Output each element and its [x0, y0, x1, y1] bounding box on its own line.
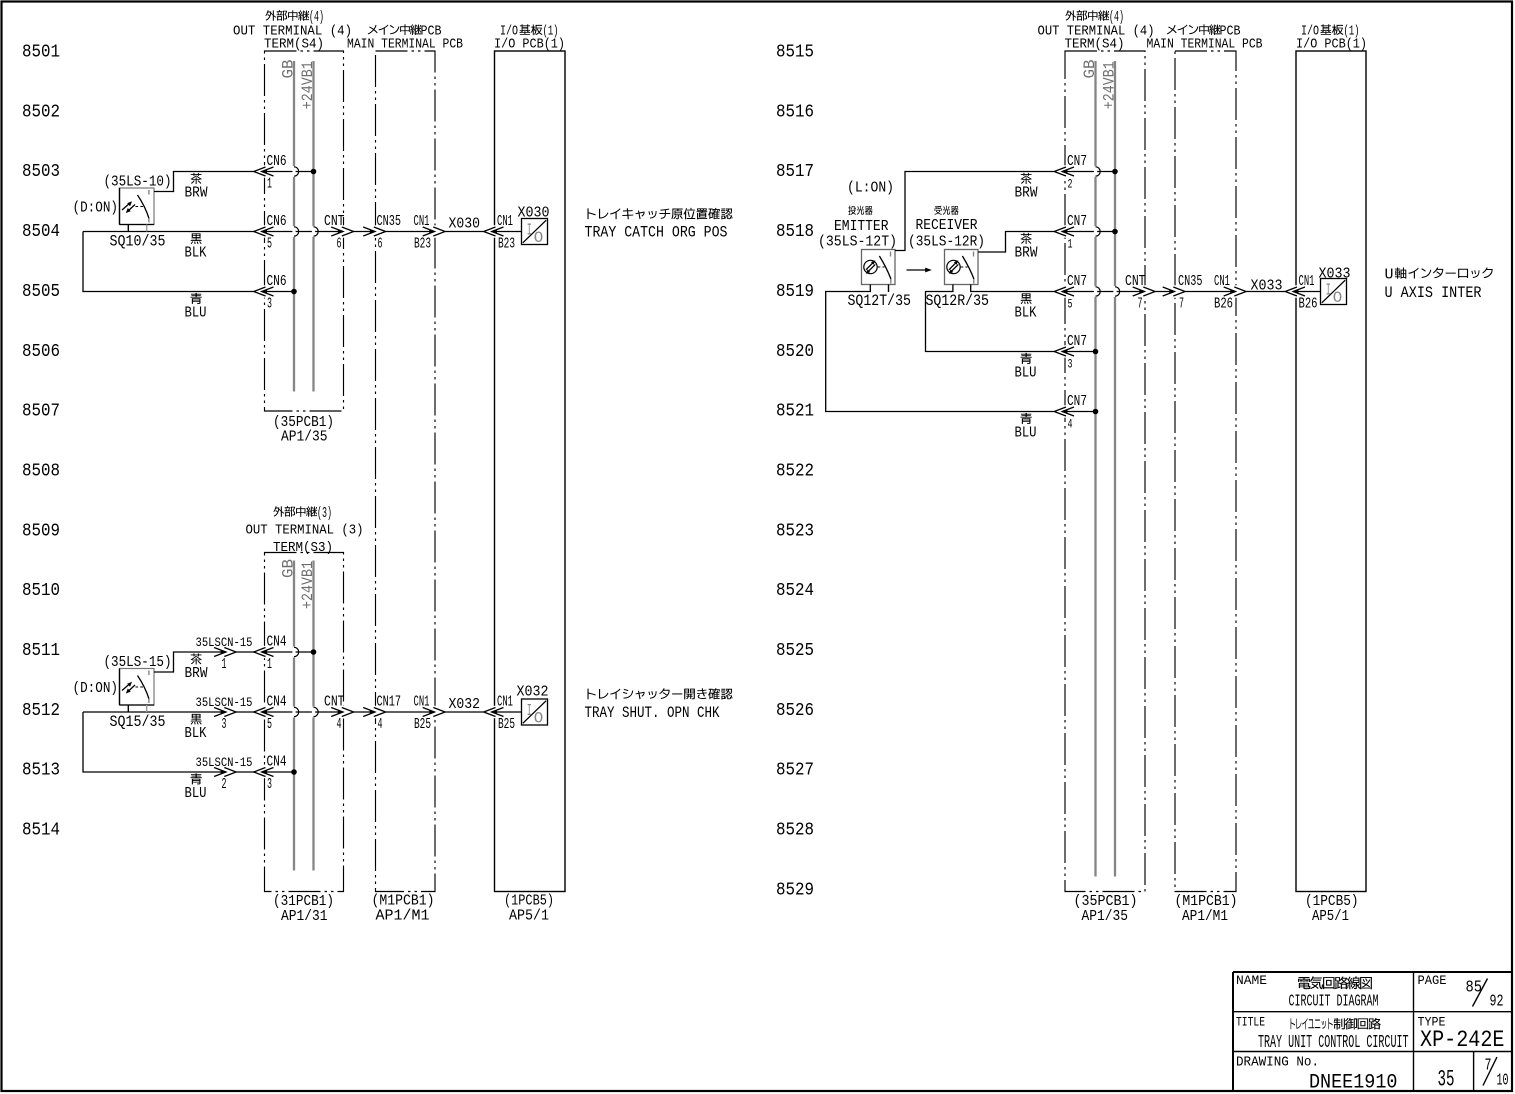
connector CNT pin4 (bottom-left) [342, 706, 346, 718]
svg-text:TITLE: TITLE [1236, 1014, 1265, 1029]
svg-text:TRAY SHUT. OPN CHK: TRAY SHUT. OPN CHK [585, 704, 721, 722]
svg-text:8521: 8521 [776, 402, 814, 422]
wire CN4 pin3 to GB [262, 771, 294, 773]
svg-text:SQ12R/35: SQ12R/35 [926, 292, 990, 310]
wire CN7 pin4 to GB [1062, 411, 1095, 413]
emitter body SQ12T/35 [862, 250, 896, 285]
svg-text:6: 6 [378, 236, 383, 253]
svg-text:CN35: CN35 [377, 213, 402, 230]
svg-text:BLU: BLU [185, 305, 207, 322]
svg-text:35LSCN-15: 35LSCN-15 [196, 755, 253, 770]
svg-text:35LSCN-15: 35LSCN-15 [196, 635, 253, 650]
svg-text:35: 35 [1438, 1066, 1455, 1092]
connector CN7 pin2 [1063, 165, 1067, 177]
svg-text:BLU: BLU [185, 785, 207, 802]
svg-text:8528: 8528 [776, 821, 814, 841]
svg-text:RECEIVER: RECEIVER [916, 217, 978, 234]
svg-text:TRAY UNIT CONTROL CIRCUIT: TRAY UNIT CONTROL CIRCUIT [1258, 1033, 1409, 1053]
svg-text:8511: 8511 [22, 641, 60, 661]
svg-text:BLU: BLU [1015, 365, 1037, 382]
svg-text:+24VB1: +24VB1 [299, 561, 317, 609]
MAIN TERMINAL PCB box (left) [376, 51, 436, 892]
svg-text:I: I [527, 702, 532, 721]
wire segment CN35 to CN1/B23 [386, 231, 433, 233]
svg-text:8516: 8516 [776, 102, 814, 122]
svg-text:8517: 8517 [776, 162, 814, 182]
svg-text:+24VB1: +24VB1 [299, 61, 317, 109]
wire BLK row 8512 [83, 711, 226, 713]
connector CN6 pin3 [263, 285, 267, 297]
wire BRW: sensor top to cable conn row 8511 [154, 652, 226, 672]
svg-text:8502: 8502 [22, 102, 60, 122]
svg-text:SQ10/35: SQ10/35 [110, 232, 166, 250]
svg-text:8519: 8519 [776, 282, 814, 302]
svg-text:AP5/1: AP5/1 [509, 908, 549, 925]
svg-text:2: 2 [222, 776, 227, 793]
svg-text:CN4: CN4 [267, 754, 287, 771]
svg-text:CN6: CN6 [267, 273, 287, 290]
wire CN4 pin1 to +24VB1 [262, 651, 314, 653]
cable connector 35LSCN-15 pin3 [214, 708, 226, 717]
svg-text:B23: B23 [498, 235, 515, 252]
svg-text:CN1: CN1 [414, 694, 430, 711]
svg-text:X030: X030 [449, 216, 481, 233]
svg-text:BLK: BLK [185, 725, 207, 742]
svg-text:3: 3 [1068, 356, 1073, 371]
svg-text:5: 5 [267, 235, 272, 252]
wire CN6 pin3 to GB [262, 291, 294, 293]
svg-text:8515: 8515 [776, 43, 814, 63]
connector CN4 pin3 [263, 766, 267, 778]
svg-text:8503: 8503 [22, 162, 60, 182]
svg-text:4: 4 [1068, 416, 1073, 431]
svg-text:CN1: CN1 [1299, 273, 1315, 290]
colour labels bottom section [191, 653, 202, 664]
wire CN6 pin1 to +24VB1 [262, 171, 314, 173]
svg-text:MAIN TERMINAL PCB: MAIN TERMINAL PCB [347, 37, 463, 53]
svg-text:CN7: CN7 [1067, 153, 1087, 170]
svg-text:1: 1 [222, 656, 227, 673]
svg-text:3: 3 [267, 295, 272, 312]
connector CN1/B25 (main right) [433, 706, 437, 718]
svg-text:3: 3 [267, 776, 272, 793]
svg-text:BRW: BRW [185, 185, 208, 202]
svg-text:CN1: CN1 [414, 213, 430, 230]
labels 受光器 RECEIVER (35LS-12R) [934, 206, 941, 215]
svg-text:8510: 8510 [22, 581, 60, 601]
labels 投光器 EMITTER (35LS-12T) [848, 206, 856, 215]
svg-text:35LSCN-15: 35LSCN-15 [196, 695, 253, 710]
connector CN17 pin4 [374, 706, 378, 718]
svg-text:CIRCUIT DIAGRAM: CIRCUIT DIAGRAM [1289, 991, 1379, 1010]
svg-text:TERM(S3): TERM(S3) [273, 540, 333, 556]
connector CN1/B25 (I/O left) [493, 706, 497, 718]
connector CN7 pin1 [1063, 225, 1067, 237]
svg-text:8506: 8506 [22, 342, 60, 362]
svg-text:1: 1 [1068, 236, 1073, 251]
svg-text:8512: 8512 [22, 701, 60, 721]
OUT TERMINAL(3) box [265, 553, 344, 892]
svg-text:8523: 8523 [776, 521, 814, 541]
connector CN1/B23 (I/O left) [493, 225, 497, 237]
emitter right pin stub [888, 285, 890, 293]
svg-text:CN7: CN7 [1067, 393, 1087, 410]
svg-text:CN7: CN7 [1067, 213, 1087, 230]
svg-text:AP1/35: AP1/35 [281, 428, 328, 445]
svg-text:(35LS-15): (35LS-15) [104, 654, 172, 671]
svg-text:SQ15/35: SQ15/35 [110, 713, 166, 731]
wire CN7 pin1 to +24VB1 [1062, 231, 1115, 233]
svg-text:8525: 8525 [776, 641, 814, 661]
wire cable conn to CN4 rows [236, 651, 254, 653]
svg-text:8522: 8522 [776, 461, 814, 481]
svg-text:O: O [534, 229, 544, 247]
connector CN1/B26 (I/O left) [1294, 285, 1298, 297]
svg-text:BRW: BRW [1015, 245, 1038, 262]
svg-text:7: 7 [1138, 296, 1143, 313]
svg-text:5: 5 [1068, 296, 1073, 311]
svg-text:CN35: CN35 [1178, 273, 1203, 290]
wire CN7 pin3 to GB [1062, 351, 1095, 353]
wire row 8504 BLK through to I/O [262, 231, 344, 233]
connector CNT pin7 (right) [1143, 285, 1147, 297]
connector CN1/B26 (main right) [1234, 285, 1238, 297]
wire CN7 pin2 to +24VB1 [1062, 171, 1115, 173]
svg-text:(35LS-12T): (35LS-12T) [818, 233, 897, 250]
header メイン中継PCB (left) [368, 25, 378, 35]
svg-text:B25: B25 [414, 716, 431, 733]
svg-text:B25: B25 [498, 716, 515, 733]
svg-text:AP1/35: AP1/35 [1082, 908, 1129, 925]
MAIN TERMINAL PCB box (right) [1175, 51, 1236, 892]
svg-text:I/O PCB(1): I/O PCB(1) [494, 37, 565, 53]
svg-text:NAME: NAME [1236, 973, 1267, 988]
svg-text:BLK: BLK [1015, 305, 1037, 322]
svg-text:CN1: CN1 [497, 694, 513, 711]
svg-text:8514: 8514 [22, 821, 60, 841]
svg-text:(D:ON): (D:ON) [73, 200, 119, 217]
svg-text:CNT: CNT [1125, 273, 1146, 290]
connector CN4 pin1 [263, 646, 267, 658]
svg-text:3: 3 [222, 716, 227, 733]
svg-text:DNEE1910: DNEE1910 [1309, 1071, 1398, 1094]
svg-text:XP-242E: XP-242E [1420, 1027, 1505, 1053]
+24VB1 power line (right) [1114, 61, 1116, 877]
svg-text:B23: B23 [414, 235, 431, 252]
svg-text:BRW: BRW [185, 665, 208, 682]
svg-text:8501: 8501 [22, 43, 60, 63]
I/O PCB box (right) [1296, 51, 1366, 892]
svg-text:10: 10 [1497, 1071, 1509, 1090]
svg-text:CN1: CN1 [497, 213, 513, 230]
svg-text:(3): (3) [317, 505, 332, 522]
svg-text:BLK: BLK [185, 245, 207, 262]
svg-text:BRW: BRW [1015, 185, 1038, 202]
svg-text:I: I [527, 222, 532, 241]
svg-text:B26: B26 [1214, 295, 1233, 312]
svg-text:O: O [1333, 289, 1343, 307]
svg-text:+24VB1: +24VB1 [1101, 61, 1119, 109]
title block [1233, 971, 1512, 973]
svg-text:8505: 8505 [22, 282, 60, 302]
wire BLU loop row 8513 [83, 712, 226, 772]
svg-text:(D:ON): (D:ON) [73, 680, 119, 697]
svg-text:8513: 8513 [22, 761, 60, 781]
svg-text:8509: 8509 [22, 521, 60, 541]
svg-text:CN6: CN6 [267, 153, 287, 170]
svg-text:1: 1 [267, 175, 272, 192]
svg-text:6: 6 [337, 236, 342, 253]
svg-text:8520: 8520 [776, 342, 814, 362]
svg-text:5: 5 [267, 716, 272, 733]
colour labels right section [1021, 173, 1032, 184]
svg-text:OUT TERMINAL (3): OUT TERMINAL (3) [246, 523, 364, 539]
svg-text:CN4: CN4 [267, 694, 287, 711]
svg-text:8508: 8508 [22, 461, 60, 481]
wire BLU: loop to CN6 pin3 [83, 232, 254, 292]
svg-text:8504: 8504 [22, 222, 60, 242]
wire BRW: sensor top to CN6 pin1 [154, 172, 254, 192]
svg-text:X032: X032 [517, 683, 549, 700]
connector CN7 pin4 [1063, 405, 1067, 417]
I/O PCB box (left) [495, 51, 566, 892]
svg-text:TRAY CATCH ORG POS: TRAY CATCH ORG POS [585, 223, 728, 241]
svg-text:CN7: CN7 [1067, 273, 1087, 290]
svg-text:AP1/M1: AP1/M1 [376, 908, 430, 925]
connector CN7 pin5 [1063, 285, 1067, 297]
svg-text:8524: 8524 [776, 581, 814, 601]
function text TRAY CATCH ORG POS [587, 208, 595, 219]
svg-text:CN17: CN17 [377, 694, 402, 711]
connector CN7 pin3 [1063, 345, 1067, 357]
svg-text:AP1/M1: AP1/M1 [1182, 908, 1228, 925]
wire emitter left pin loop to CN7 pin4 [826, 285, 1054, 412]
header メイン中継PCB (right) [1167, 25, 1177, 35]
light beam arrow emitter->receiver [907, 269, 929, 271]
connector CN4 pin5 [263, 706, 267, 718]
wire segment CNT to CN35 [354, 231, 374, 233]
svg-text:BLU: BLU [1015, 425, 1037, 442]
svg-text:CN7: CN7 [1067, 333, 1087, 350]
receiver body SQ12R/35 [945, 250, 979, 285]
svg-text:DRAWING No.: DRAWING No. [1236, 1055, 1319, 1071]
svg-text:I/O PCB(1): I/O PCB(1) [1296, 37, 1367, 53]
svg-text:AP5/1: AP5/1 [1312, 908, 1349, 925]
svg-text:CNT: CNT [324, 213, 345, 230]
svg-text:MAIN TERMINAL PCB: MAIN TERMINAL PCB [1147, 37, 1263, 53]
svg-text:GB: GB [1081, 60, 1099, 79]
svg-text:8518: 8518 [776, 222, 814, 242]
wire BLK: sensor bottom to CN6 pin5 [83, 231, 254, 233]
+24VB1 power line (bottom-left) [312, 561, 314, 871]
svg-text:CN1: CN1 [1214, 273, 1230, 290]
svg-text:AP1/31: AP1/31 [281, 908, 328, 925]
OUT TERMINAL(4) box (right) [1065, 51, 1145, 892]
svg-text:CN6: CN6 [267, 213, 287, 230]
connector CN6 pin1 [263, 165, 267, 177]
GB power line (right) [1094, 61, 1096, 877]
svg-text:2: 2 [1068, 176, 1073, 191]
OUT TERMINAL(4) box [265, 51, 344, 411]
cable connector 35LSCN-15 pin1 [214, 648, 226, 657]
svg-text:8526: 8526 [776, 701, 814, 721]
svg-text:8529: 8529 [776, 880, 814, 900]
svg-text:O: O [534, 709, 544, 727]
GB power line (bottom-left) [293, 561, 295, 871]
wire colour labels 茶BRW 黒BLK 青BLU [191, 173, 202, 184]
header 外部中継(4) right [1065, 10, 1076, 20]
svg-text:1: 1 [267, 656, 272, 673]
svg-text:8527: 8527 [776, 761, 814, 781]
svg-text:U: U [1385, 266, 1394, 283]
sensor body SQ10/35 (35LS-10) [120, 188, 155, 225]
GB power line (top-left) [293, 61, 295, 392]
wire receiver right pin to CN7 pin5 [971, 285, 1054, 292]
wire receiver top to CN7 pin1 [978, 232, 1054, 253]
wire row 8519 through to I/O [1062, 291, 1145, 293]
svg-text:U AXIS INTER: U AXIS INTER [1385, 284, 1482, 302]
cable connector 35LSCN-15 pin2 [214, 768, 226, 777]
svg-text:4: 4 [337, 716, 342, 733]
svg-text:PAGE: PAGE [1418, 973, 1447, 988]
connector CN6 pin5 [263, 225, 267, 237]
svg-text:92: 92 [1490, 991, 1504, 1010]
connector CNT pin6 (top-left) [342, 225, 346, 237]
wire segment to I/O CN1 [445, 231, 484, 233]
svg-text:CNT: CNT [324, 694, 345, 711]
svg-text:(35LS-12R): (35LS-12R) [908, 233, 985, 250]
svg-text:TERM(S4): TERM(S4) [264, 37, 324, 53]
function text TRAY SHUT OPN CHK [587, 689, 595, 700]
svg-text:GB: GB [280, 60, 298, 79]
header 外部中継(4) top-left [265, 10, 276, 20]
svg-text:SQ12T/35: SQ12T/35 [848, 292, 912, 310]
connector CN1/B23 (main right) [433, 225, 437, 237]
svg-text:GB: GB [280, 559, 298, 578]
svg-text:(35LS-10): (35LS-10) [104, 173, 172, 190]
sensor body SQ15/35 (35LS-15) [120, 669, 155, 706]
connector CN35 pin6 [374, 225, 378, 237]
header 外部中継(3) bottom-left [273, 506, 284, 516]
svg-text:TERM(S4): TERM(S4) [1065, 37, 1125, 53]
wire receiver left pin loop to CN7 pin3 [926, 285, 1055, 352]
svg-text:CN4: CN4 [267, 634, 287, 651]
svg-text:I: I [1326, 282, 1331, 301]
svg-text:4: 4 [378, 716, 383, 733]
wire row 8512 through to I/O [262, 711, 344, 713]
svg-text:B26: B26 [1299, 295, 1318, 312]
wire emitter top to CN7 pin2 [895, 172, 1054, 251]
wire into X030 symbol [492, 231, 522, 233]
svg-text:(L:ON): (L:ON) [847, 179, 894, 196]
svg-text:7: 7 [1179, 296, 1184, 313]
svg-text:X032: X032 [449, 696, 481, 713]
connector CN35 pin7 (right) [1173, 285, 1177, 297]
svg-text:8507: 8507 [22, 402, 60, 422]
+24VB1 power line (top-left) [312, 61, 314, 392]
